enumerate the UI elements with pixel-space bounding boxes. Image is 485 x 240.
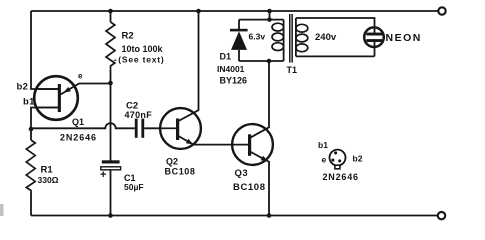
svg-text:D1: D1 [220,52,232,62]
svg-text:R1: R1 [41,164,54,175]
svg-text:10to 100k: 10to 100k [122,44,164,54]
svg-text:Q2: Q2 [166,157,178,167]
svg-text:+: + [100,169,106,181]
svg-text:BC108: BC108 [165,167,196,177]
svg-text:R2: R2 [122,30,134,41]
svg-text:240v: 240v [315,32,337,43]
svg-text:IN4001: IN4001 [217,64,245,74]
svg-text:Q1: Q1 [72,117,84,127]
svg-text:2N2646: 2N2646 [60,132,97,142]
svg-text:b2: b2 [17,81,29,92]
svg-text:(See text): (See text) [118,55,164,65]
svg-text:6.3v: 6.3v [249,32,266,42]
svg-text:BC108: BC108 [233,182,266,193]
svg-text:b2: b2 [353,154,363,164]
svg-text:2N2646: 2N2646 [323,172,359,182]
svg-text:330Ω: 330Ω [38,175,59,185]
svg-text:b1: b1 [318,140,328,150]
svg-text:470nF: 470nF [125,110,153,120]
svg-text:50µF: 50µF [124,182,144,192]
svg-text:e: e [78,72,83,81]
svg-text:e: e [322,155,327,165]
svg-text:b1: b1 [23,96,35,107]
svg-text:T1: T1 [287,65,298,75]
svg-text:BY126: BY126 [220,75,248,85]
svg-text:NEON: NEON [386,32,422,44]
svg-text:Q3: Q3 [235,168,249,179]
